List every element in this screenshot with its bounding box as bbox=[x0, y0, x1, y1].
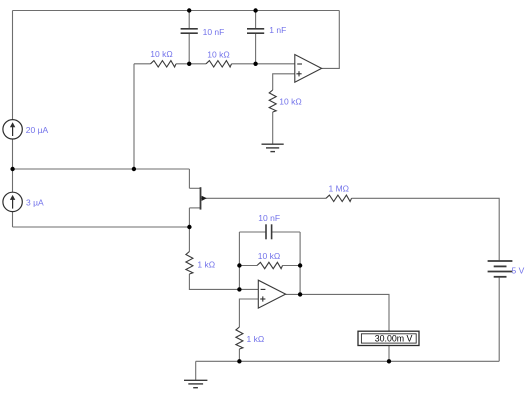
wire R6 row left lead bbox=[239, 265, 257, 267]
junction node row C1 bbox=[187, 62, 191, 66]
ground G2 bottom left bbox=[184, 380, 207, 387]
wire node y169 to CS2 top bbox=[12, 169, 14, 192]
voltmeter U3 outer box bbox=[358, 331, 419, 345]
wire U1 plus input to corner bbox=[273, 74, 295, 90]
wire mid horizontal y169 bbox=[13, 168, 190, 170]
svg-text:10 kΩ: 10 kΩ bbox=[279, 97, 301, 107]
battery V1 plates bbox=[488, 261, 513, 277]
junction node R6 left bbox=[237, 263, 241, 267]
wire C1 bottom stub bbox=[188, 33, 190, 63]
capacitor C2 1nF plates bbox=[247, 29, 264, 33]
wire resistor row left lead bbox=[134, 63, 151, 65]
junction node bottom R5 bbox=[237, 359, 241, 363]
svg-text:5 V: 5 V bbox=[512, 265, 525, 275]
op-amp U1 triangle bbox=[295, 55, 322, 83]
junction node row C2 bbox=[253, 62, 257, 66]
op-amp U2 minus glyph bbox=[261, 288, 266, 290]
svg-text:10 nF: 10 nF bbox=[258, 213, 280, 223]
resistor R7 1M horizontal bbox=[326, 195, 352, 201]
wire C2 top stub bbox=[255, 11, 257, 29]
junction node top C1 bbox=[187, 8, 191, 12]
junction node left rail y169 bbox=[10, 167, 14, 171]
wire between R1 and R2 bbox=[176, 63, 206, 65]
resistor R5 1k vertical bbox=[236, 327, 243, 349]
wire U2 output to voltmeter corner bbox=[286, 294, 389, 331]
current source I1 20uA circle bbox=[3, 120, 22, 139]
junction node bottom voltmeter bbox=[387, 359, 391, 363]
op-amp U1 plus glyph bbox=[296, 71, 301, 76]
wire node y227 down to R4 bbox=[188, 227, 190, 252]
capacitor C3 10nF plates bbox=[266, 224, 272, 239]
wire R2 to op-amp U1 minus input bbox=[232, 63, 295, 65]
wire left feedback vertical x239.4 bbox=[238, 232, 240, 289]
wire feedback vertical x300.1 output to C3 bbox=[299, 232, 301, 294]
svg-text:10 kΩ: 10 kΩ bbox=[258, 251, 280, 261]
resistor R2 10k horizontal bbox=[206, 61, 232, 67]
resistor R4 1k vertical bbox=[186, 252, 193, 275]
svg-text:3 µA: 3 µA bbox=[26, 197, 44, 207]
wire ground G2 stem bbox=[195, 361, 197, 380]
wire U2 plus input to corner down to R5 bbox=[239, 299, 258, 327]
wire C2 bottom stub bbox=[255, 33, 257, 63]
svg-text:1 kΩ: 1 kΩ bbox=[197, 260, 215, 270]
current source I1 arrow bbox=[10, 122, 15, 136]
wire vertical x134 from resistor row to y169 bbox=[133, 64, 135, 169]
wire C3 row right lead bbox=[272, 231, 300, 233]
wire U1 output feedback up bbox=[322, 11, 340, 69]
junction node U2 output bbox=[298, 292, 302, 296]
wire left rail x=12.5 top segment bbox=[12, 11, 14, 120]
current source I2 3uA circle bbox=[3, 192, 22, 211]
wire bottom-left horizontal y227 bbox=[13, 226, 190, 228]
wire voltmeter bottom to bottom rail bbox=[388, 346, 390, 362]
svg-text:10 nF: 10 nF bbox=[203, 27, 225, 37]
current source I2 arrow bbox=[10, 195, 15, 209]
svg-text:1 nF: 1 nF bbox=[269, 25, 286, 35]
transistor Q1 channel bar bbox=[200, 187, 202, 209]
wire top feedback rail y=10.5 bbox=[13, 10, 340, 12]
wire R7 to right corner down to battery bbox=[352, 198, 500, 260]
wire Q1 source vertical to node bbox=[188, 208, 190, 227]
svg-text:20 µA: 20 µA bbox=[26, 125, 49, 135]
wire CS2 bottom to corner y227 bbox=[12, 212, 14, 227]
junction node source y227 bbox=[187, 225, 191, 229]
wire R5 bottom to bottom rail bbox=[238, 349, 240, 361]
op-amp U1 minus glyph bbox=[297, 63, 302, 65]
resistor R1 10k horizontal bbox=[151, 61, 177, 67]
svg-text:10 kΩ: 10 kΩ bbox=[150, 49, 172, 59]
svg-text:30.00m V: 30.00m V bbox=[375, 333, 413, 343]
op-amp U2 plus glyph bbox=[260, 296, 265, 301]
resistor R6 10k horizontal feedback bbox=[257, 262, 283, 268]
wire R6 row right lead bbox=[283, 265, 301, 267]
wire Q1 gate to R7 bbox=[201, 197, 327, 199]
wire bottom rail y361.3 bbox=[196, 360, 500, 362]
wire R4 bottom to U2 minus row bbox=[189, 274, 258, 289]
svg-text:1 MΩ: 1 MΩ bbox=[329, 184, 350, 194]
transistor Q1 gate arrow bbox=[202, 196, 207, 201]
wire R3 bottom to ground bbox=[272, 112, 274, 144]
wire Q1 drain stub bbox=[189, 187, 200, 189]
resistor R3 10k vertical bbox=[269, 90, 276, 112]
junction node top C2 bbox=[253, 8, 257, 12]
svg-text:10 kΩ: 10 kΩ bbox=[207, 49, 229, 59]
op-amp U2 triangle bbox=[258, 280, 285, 308]
ground G1 under R3 bbox=[262, 144, 284, 151]
junction node U2 minus bbox=[237, 287, 241, 291]
wire Q1 drain vertical bbox=[188, 169, 190, 188]
wire CS1 bottom to node y169 bbox=[12, 139, 14, 169]
capacitor C1 10nF plates bbox=[181, 29, 198, 33]
voltmeter U3 inner box bbox=[361, 334, 416, 343]
junction node x134 y169 bbox=[132, 167, 136, 171]
wire Q1 source stub bbox=[189, 207, 200, 209]
wire battery bottom down to bottom rail bbox=[498, 278, 500, 362]
junction node R6 right bbox=[298, 263, 302, 267]
svg-text:1 kΩ: 1 kΩ bbox=[247, 334, 265, 344]
wire C1 top stub bbox=[188, 11, 190, 29]
wire C3 row left lead bbox=[239, 231, 265, 233]
